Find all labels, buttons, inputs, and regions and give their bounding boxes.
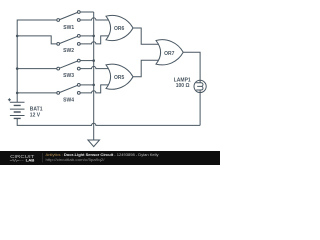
svg-text:12 V: 12 V [30, 113, 41, 119]
battery plus sign [8, 98, 11, 101]
svg-text:100 Ω: 100 Ω [176, 83, 190, 89]
svg-text:SW4: SW4 [63, 98, 74, 104]
wire OR6 output to OR7 input1 [133, 28, 158, 44]
wire SW2 bottom throw to OR6 input2 (hops bus) [80, 36, 108, 44]
wire OR5 output to OR7 input2 [133, 60, 158, 76]
wire rail to SW4 common [17, 92, 57, 94]
OR gate OR5 body [106, 64, 133, 89]
svg-text:http://circuitlab.com/c/5pa9q2: http://circuitlab.com/c/5pa9q2/ [46, 158, 105, 162]
node bus-SW3top dot [92, 59, 95, 62]
wire SW3 bottom throw to OR5 input1 (hops bus) [80, 66, 108, 68]
node bus-SW4top dot [92, 84, 95, 87]
wire bottom return rail (hops ground bus) [17, 118, 200, 125]
node bus-SW2top dot [92, 35, 95, 38]
wire OR7 output to lamp [183, 52, 200, 80]
wire SW1 bottom throw to OR6 input1 (hops bus) [80, 18, 108, 20]
wire SW1 top throw to ground bus [80, 11, 94, 13]
wire SW4 bottom throw to OR5 input2 (hops bus) [80, 85, 108, 93]
node rail-SW3 branch dot [16, 67, 19, 70]
lamp LAMP1 filament [196, 80, 203, 92]
svg-text:LAB: LAB [26, 158, 35, 163]
svg-text:SW2: SW2 [63, 48, 74, 54]
ground symbol [88, 140, 100, 147]
switch SW2 [57, 35, 80, 46]
OR gate OR6 body [106, 15, 133, 40]
wire left +12V rail [17, 20, 57, 102]
svg-text:BAT1: BAT1 [30, 106, 43, 112]
switch SW1 [57, 11, 80, 22]
footer divider [42, 153, 44, 162]
footer watermark bar [0, 151, 220, 165]
node rail-SW2 branch dot [16, 35, 19, 38]
svg-text:OR6: OR6 [114, 26, 125, 32]
wire rail to SW2 common [17, 36, 57, 44]
wire SW4 top throw to bus [80, 84, 94, 86]
svg-text:OR5: OR5 [114, 75, 125, 81]
wire rail to SW3 common [17, 68, 57, 70]
svg-text:Antlytics : Door-Light Sensor: Antlytics : Door-Light Sensor Circuit - … [46, 153, 159, 157]
wire SW2 top throw to bus [80, 35, 94, 37]
node rail-SW4 branch dot [16, 92, 19, 95]
switch SW4 [57, 84, 80, 95]
switch SW3 [57, 59, 80, 70]
wire SW3 top throw to bus [80, 60, 94, 62]
wire lamp to bottom rail [199, 93, 201, 126]
lamp LAMP1 body [194, 80, 206, 92]
svg-text:SW1: SW1 [63, 25, 74, 31]
battery BAT1 [10, 102, 25, 118]
svg-text:OR7: OR7 [164, 51, 175, 57]
svg-text:SW3: SW3 [63, 73, 74, 79]
wire ground bus vertical [93, 12, 95, 140]
OR gate OR7 body [156, 40, 183, 65]
footer logo wire-resistor squiggle [10, 159, 24, 161]
